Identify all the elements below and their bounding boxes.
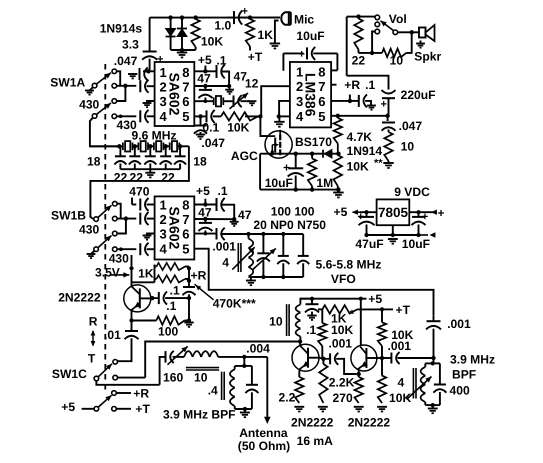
svg-text:1: 1 bbox=[296, 65, 303, 80]
capacitor .047 pin1 bbox=[139, 68, 141, 80]
svg-text:430: 430 bbox=[79, 98, 99, 112]
svg-text:2N2222: 2N2222 bbox=[291, 416, 334, 430]
wire 7805 left bbox=[360, 211, 377, 213]
resistor 1K mic bias bbox=[246, 19, 254, 47]
arrow +5 out bbox=[353, 211, 361, 213]
svg-text:10K: 10K bbox=[331, 323, 353, 337]
ground spkr bbox=[420, 41, 422, 44]
ground +R cap bbox=[367, 105, 376, 107]
diode D1 1N914 (down) bbox=[170, 18, 172, 50]
svg-text:.1: .1 bbox=[170, 284, 180, 298]
transistor Q1 2N2222 buffer bbox=[124, 285, 151, 312]
svg-text:1.0: 1.0 bbox=[214, 18, 231, 32]
wire x4-out bbox=[179, 145, 189, 147]
svg-text:3.9 MHz BPF: 3.9 MHz BPF bbox=[163, 407, 236, 421]
capacitor .1 +R osc bbox=[183, 286, 195, 288]
svg-text:.047: .047 bbox=[201, 136, 225, 150]
wire xtal-trimmer bbox=[223, 100, 233, 102]
switch SW1D pole bbox=[94, 407, 99, 412]
svg-text:+R: +R bbox=[133, 386, 149, 400]
wire 10 to spkr riser bbox=[406, 32, 412, 53]
wire U1 pin6 row bbox=[194, 100, 214, 102]
wire x2-x3 bbox=[148, 145, 154, 147]
svg-text:.01: .01 bbox=[104, 328, 121, 342]
svg-text:10K: 10K bbox=[201, 34, 223, 48]
resistor 10K (limiter) bbox=[191, 19, 199, 47]
svg-text:430: 430 bbox=[109, 251, 129, 265]
node bpf in bbox=[431, 356, 435, 360]
svg-text:2: 2 bbox=[160, 212, 167, 227]
capacitor 22c bbox=[165, 146, 167, 155]
svg-text:1: 1 bbox=[160, 65, 167, 80]
resistor 10K tx3 bbox=[381, 358, 383, 376]
node wiper-spkr bbox=[410, 30, 414, 34]
node pin8 +5 (U3) bbox=[203, 202, 207, 206]
node sw1b t2 bbox=[124, 216, 128, 220]
node collector bbox=[150, 296, 154, 300]
node src-left bbox=[270, 152, 274, 156]
capacitor 10uF reg bbox=[418, 212, 420, 216]
node sw1b t4 bbox=[119, 247, 123, 251]
ground SW1A pole1 bbox=[90, 87, 93, 90]
wire +R col down bbox=[188, 298, 190, 320]
wire U3 pin8 row bbox=[194, 204, 216, 206]
node pin5 bbox=[198, 114, 202, 118]
wire agc bottom row bbox=[260, 189, 338, 191]
capacitor 1.0 (polarized) bbox=[233, 11, 235, 24]
wire vol riser bbox=[346, 17, 348, 76]
svg-text:12: 12 bbox=[245, 76, 259, 90]
svg-text:+T: +T bbox=[396, 303, 411, 317]
node filt n2 bbox=[148, 144, 152, 148]
resistor 10 out bbox=[388, 130, 390, 133]
svg-text:22: 22 bbox=[130, 170, 144, 184]
svg-text:+: + bbox=[157, 54, 163, 66]
capacitor 47 (U3) bbox=[204, 219, 206, 223]
ground cap47b (U3) bbox=[230, 221, 239, 223]
svg-text:.047: .047 bbox=[399, 119, 423, 133]
wire sw1c pole drop bbox=[96, 381, 159, 385]
svg-text:SW1B: SW1B bbox=[51, 209, 86, 223]
node throw2 bbox=[123, 84, 127, 88]
svg-text:2.2K: 2.2K bbox=[329, 376, 355, 390]
node tx base bbox=[298, 339, 302, 343]
svg-text:400: 400 bbox=[450, 384, 470, 398]
capacitor 18a bbox=[119, 146, 121, 155]
node 22/10 junction bbox=[370, 51, 374, 55]
wire pin1 row bbox=[143, 70, 155, 72]
wire audio row to 10K bbox=[245, 115, 260, 117]
wire U2 pin4 to gnd node bbox=[279, 115, 290, 117]
svg-text:Vol: Vol bbox=[389, 12, 407, 26]
node bot-1M bbox=[310, 187, 314, 191]
svg-text:47: 47 bbox=[197, 72, 211, 86]
ground 10K** bbox=[337, 190, 339, 193]
svg-text:2: 2 bbox=[296, 79, 303, 94]
resistor 4.7K bbox=[337, 116, 339, 118]
svg-text:+: + bbox=[358, 211, 364, 223]
wire sw1b throw1 jumper bbox=[117, 204, 121, 219]
arrow 470K label bbox=[195, 284, 214, 300]
mixer U3 SA602 box bbox=[155, 196, 195, 259]
svg-text:1N914: 1N914 bbox=[347, 144, 383, 158]
node vfo b2 bbox=[281, 275, 285, 279]
wire 1K/470K left col bbox=[154, 265, 156, 283]
svg-text:+: + bbox=[381, 99, 387, 111]
transistor Q3 2N2222 tx2 bbox=[351, 345, 377, 371]
crystal BFO bbox=[216, 96, 221, 106]
svg-text:T: T bbox=[88, 352, 96, 366]
node pin7-.1 bbox=[227, 84, 231, 88]
svg-text:SW1C: SW1C bbox=[52, 367, 87, 381]
svg-text:+: + bbox=[299, 49, 305, 61]
switch SW1B throw3 bbox=[113, 231, 118, 236]
svg-text:1: 1 bbox=[160, 198, 167, 213]
node 47uF top bbox=[364, 210, 368, 214]
switch SW1A throw1 bbox=[112, 69, 117, 74]
wire coil to ant row bbox=[218, 356, 267, 358]
capacitor cap pin2 bbox=[139, 80, 141, 92]
wire q3 base lead bbox=[358, 370, 360, 375]
capacitor .1 (U3) bbox=[216, 198, 218, 211]
wire SW1A pole2 drop bbox=[90, 118, 119, 146]
inductor bpf coil bbox=[424, 363, 426, 367]
svg-text:3: 3 bbox=[160, 226, 167, 241]
capacitor cap pin4 bbox=[139, 110, 141, 122]
node tx rail a bbox=[310, 297, 314, 301]
wire U3 pin7 row bbox=[194, 218, 234, 220]
wire node to spkr bbox=[412, 31, 419, 33]
node q2 coll bbox=[321, 357, 325, 361]
svg-text:+: + bbox=[242, 6, 248, 18]
ground 2.2 bbox=[294, 406, 304, 408]
ground VFO bbox=[250, 277, 252, 281]
svg-text:.1: .1 bbox=[166, 299, 176, 313]
svg-text:3: 3 bbox=[160, 94, 167, 109]
capacitor .001 out bbox=[390, 353, 392, 364]
svg-text:22: 22 bbox=[114, 170, 128, 184]
wire 7805 right bbox=[409, 211, 436, 213]
svg-text:20 NP0 N750: 20 NP0 N750 bbox=[253, 218, 326, 232]
svg-text:+T: +T bbox=[248, 50, 263, 64]
svg-text:+5: +5 bbox=[368, 292, 382, 306]
svg-text:18: 18 bbox=[193, 155, 207, 169]
svg-text:3.3: 3.3 bbox=[122, 38, 139, 52]
ground SW1B pole2 bbox=[91, 251, 94, 254]
wire +T row bbox=[377, 308, 393, 310]
svg-text:LM386: LM386 bbox=[303, 73, 319, 117]
wire 7805 gnd bbox=[392, 225, 394, 235]
svg-text:10: 10 bbox=[390, 54, 404, 68]
switch SW1A throw2 bbox=[112, 84, 117, 89]
switch SW1C throw2 bbox=[113, 375, 118, 380]
wire .01 to sw1c bbox=[118, 358, 132, 361]
wire diode bottoms bbox=[171, 49, 196, 51]
svg-text:470: 470 bbox=[129, 185, 149, 199]
switch Vol wiper bbox=[393, 30, 398, 35]
switch Vol contact3 bbox=[375, 29, 380, 34]
svg-text:100: 100 bbox=[158, 324, 178, 338]
node filt in bbox=[117, 144, 121, 148]
svg-text:220uF: 220uF bbox=[401, 88, 436, 102]
svg-text:1K: 1K bbox=[138, 267, 154, 281]
svg-text:10uF: 10uF bbox=[265, 176, 293, 190]
wire vfo top row bbox=[249, 233, 304, 235]
wire vol rail bbox=[347, 16, 359, 18]
wire bs170 source row bbox=[260, 153, 338, 155]
svg-text:430: 430 bbox=[79, 223, 99, 237]
capacitor cap U3 pin2 bbox=[139, 213, 141, 225]
inductor VFO coil bbox=[248, 234, 250, 239]
ground 7805 bbox=[388, 238, 398, 240]
node 100 gnd bbox=[187, 318, 191, 322]
svg-text:+5: +5 bbox=[196, 184, 210, 198]
wire U2 pin7 stub bbox=[331, 84, 337, 86]
resistor 10K** bbox=[334, 155, 342, 186]
wire vol feed row bbox=[347, 76, 389, 90]
ground filter bbox=[149, 169, 151, 173]
svg-text:(50 Ohm): (50 Ohm) bbox=[238, 439, 290, 453]
capacitor .1 tx bbox=[311, 299, 313, 304]
node 10uF top bbox=[416, 210, 420, 214]
svg-text:+5: +5 bbox=[61, 400, 75, 414]
switch SW1D throw +T bbox=[112, 407, 117, 412]
node pin3/4 gnd bbox=[277, 114, 281, 118]
capacitor .001 feed bbox=[433, 316, 435, 321]
svg-text:.001: .001 bbox=[212, 239, 236, 253]
wire x3-x4 bbox=[164, 145, 170, 147]
node pin5-220uF bbox=[385, 114, 389, 118]
node pin7-47 bbox=[203, 84, 207, 88]
svg-text:10K: 10K bbox=[347, 159, 369, 173]
node 3.3-pin1 bbox=[146, 69, 150, 73]
switch SW1A pole1 bbox=[92, 83, 97, 88]
node src-1M bbox=[310, 152, 314, 156]
svg-text:1K: 1K bbox=[258, 28, 274, 42]
capacitor .1 +R bbox=[350, 100, 359, 102]
regulator 7805 box bbox=[377, 199, 410, 225]
svg-text:4: 4 bbox=[222, 256, 229, 270]
wire 1K* left col bbox=[321, 309, 323, 323]
node rail gnd bbox=[391, 233, 395, 237]
node filt n3 bbox=[164, 144, 168, 148]
crystal X3 bbox=[156, 141, 161, 151]
svg-text:5.6-5.8 MHz: 5.6-5.8 MHz bbox=[316, 258, 382, 272]
node filt n1 bbox=[133, 144, 137, 148]
node rail-1.0cap out bbox=[248, 15, 252, 19]
diode 1N914 agc2 bbox=[324, 150, 332, 159]
wire bpf loop bottom bbox=[425, 404, 440, 406]
svg-text:+R: +R bbox=[344, 78, 360, 92]
switch SW1C throw1 bbox=[113, 360, 118, 365]
resistor 10K tx2 bbox=[381, 309, 383, 322]
svg-text:BS170: BS170 bbox=[295, 135, 332, 149]
capacitor cap U3 pin4 bbox=[139, 243, 141, 255]
svg-text:22: 22 bbox=[161, 170, 175, 184]
node src-10uF bbox=[294, 152, 298, 156]
capacitor .1 out bbox=[152, 297, 159, 299]
wire filter out loop bbox=[90, 146, 188, 219]
svg-text:470K***: 470K*** bbox=[213, 297, 256, 311]
svg-text:Antenna: Antenna bbox=[239, 426, 288, 440]
node pin5-4.7K bbox=[336, 114, 340, 118]
wire 3.5V node col bbox=[131, 255, 133, 287]
wire U3 pin5 out bbox=[194, 249, 433, 316]
node rail 10uF bbox=[416, 233, 420, 237]
wire q3 coll from +5 bbox=[360, 299, 362, 346]
svg-text:.001: .001 bbox=[447, 317, 471, 331]
inductor .4 secondary bbox=[234, 366, 236, 369]
node 3.5v bbox=[129, 266, 133, 270]
svg-text:10uF: 10uF bbox=[402, 237, 430, 251]
node vol rail bbox=[356, 14, 360, 18]
svg-text:4: 4 bbox=[160, 109, 168, 124]
switch SW1D throw +R bbox=[112, 391, 117, 396]
ground 10K tx3 bbox=[377, 406, 387, 408]
wire rail to mic bbox=[250, 17, 280, 19]
svg-text:18: 18 bbox=[87, 155, 101, 169]
wire q2 base drop bbox=[299, 342, 301, 346]
ground 10 out bbox=[383, 162, 393, 164]
svg-text:47: 47 bbox=[198, 206, 212, 220]
wire filter cap bus bbox=[120, 168, 180, 170]
resistor 1M bbox=[311, 154, 313, 159]
resistor 470K bbox=[155, 278, 157, 280]
wire vfo bottom row bbox=[249, 276, 304, 278]
switch SW1B pole1 bbox=[94, 217, 99, 222]
capacitor 47uF bbox=[366, 212, 368, 216]
node pin7-47 (U3) bbox=[203, 217, 207, 221]
node tx rail b bbox=[359, 297, 363, 301]
mixer U1 SA602 box bbox=[155, 62, 195, 126]
wire U1 pin5 row bbox=[194, 115, 203, 117]
svg-text:1N914s: 1N914s bbox=[100, 21, 143, 35]
wire throw2 riser bbox=[145, 342, 300, 378]
wire vol rail to sw bbox=[359, 16, 376, 18]
ground 2.2K bbox=[318, 406, 328, 408]
svg-text:9 VDC: 9 VDC bbox=[394, 185, 430, 199]
wire +R node col bbox=[188, 267, 190, 287]
diode D2 1N914 (up) bbox=[181, 18, 183, 50]
svg-text:3: 3 bbox=[296, 94, 303, 109]
ground .047 pin1 bbox=[133, 73, 137, 75]
wire 10K to pin2 bbox=[258, 115, 260, 117]
svg-text:SA602: SA602 bbox=[167, 206, 183, 249]
svg-text:.1: .1 bbox=[218, 184, 228, 198]
svg-text:+5: +5 bbox=[198, 53, 212, 67]
wire filter input bbox=[90, 145, 123, 147]
node rail-diode2 bbox=[180, 15, 184, 19]
resistor 1K* bbox=[318, 308, 322, 310]
wire bpf stub bbox=[433, 358, 435, 363]
capacitor 100 N750 bbox=[302, 234, 304, 255]
ground cap47b bbox=[229, 86, 231, 90]
wire bpf loop top bbox=[425, 362, 440, 364]
node ant tank top bbox=[242, 355, 246, 359]
wire agc left col bbox=[259, 154, 261, 190]
ground 270 bbox=[354, 406, 364, 408]
node bot-10uF bbox=[294, 187, 298, 191]
capacitor tank bbox=[246, 384, 258, 386]
svg-text:10: 10 bbox=[269, 314, 283, 328]
arrow 9V- in bbox=[421, 234, 428, 236]
svg-text:9.6 MHz: 9.6 MHz bbox=[132, 129, 177, 143]
wire q2 coll lead bbox=[319, 358, 323, 359]
svg-text:3.9 MHz: 3.9 MHz bbox=[450, 353, 495, 367]
resistor 22 bbox=[354, 19, 362, 50]
node rail-10K bbox=[193, 15, 197, 19]
arrow 9V+ in bbox=[431, 210, 437, 215]
capacitor 3.3 bbox=[143, 51, 157, 53]
trimmer 160 bbox=[95, 384, 97, 386]
wire sw1c throw2 wire bbox=[118, 377, 146, 379]
svg-text:+: + bbox=[283, 161, 290, 175]
node rail 47uF bbox=[364, 233, 368, 237]
resistor 1K osc bbox=[155, 266, 157, 268]
inductor 10uH bbox=[184, 351, 193, 357]
wire emitter row bbox=[132, 320, 157, 322]
wire sw1b throw2 row bbox=[117, 218, 136, 220]
svg-text:.001: .001 bbox=[329, 337, 353, 351]
switch SW1A pole2 bbox=[92, 114, 97, 119]
svg-text:47: 47 bbox=[238, 208, 252, 222]
switch SW1B pole2 bbox=[94, 247, 99, 252]
ground U3 pin3 bbox=[147, 234, 155, 236]
wire x1-x2 bbox=[133, 145, 139, 147]
wire agc gate bbox=[260, 116, 267, 136]
ground .047 pin5 bbox=[200, 132, 202, 135]
svg-text:Spkr: Spkr bbox=[414, 50, 441, 64]
svg-text:4: 4 bbox=[398, 375, 405, 389]
node q3 out bbox=[380, 356, 384, 360]
node tank top bbox=[242, 364, 246, 368]
node bot-10K bbox=[336, 187, 340, 191]
svg-text:4: 4 bbox=[160, 241, 168, 256]
ground bpf bbox=[432, 405, 434, 408]
node src-diode bbox=[336, 152, 340, 156]
wire sw1b throw4 row bbox=[117, 248, 136, 250]
ground 100 bbox=[184, 322, 193, 324]
capacitor .01 bbox=[131, 329, 133, 331]
svg-text:*: * bbox=[350, 307, 355, 321]
node vfo b1 bbox=[261, 275, 265, 279]
node bpf top bbox=[431, 361, 435, 365]
svg-text:Mic: Mic bbox=[294, 12, 314, 26]
wire U1 pin7 row bbox=[194, 85, 229, 87]
svg-text:AGC: AGC bbox=[231, 149, 258, 163]
wire top rail from diodes to mic bbox=[150, 17, 280, 19]
wire wiper to node bbox=[398, 31, 412, 33]
capacitor .001 vfo bbox=[216, 228, 218, 240]
wire U2 pin3 drop bbox=[279, 101, 290, 117]
resistor 270 bbox=[358, 374, 360, 377]
svg-text:.004: .004 bbox=[246, 341, 270, 355]
wire base bar row bbox=[132, 281, 155, 283]
node pin6-xtal (U3) bbox=[204, 232, 208, 236]
node bpf bottom bbox=[431, 403, 435, 407]
svg-text:.4: .4 bbox=[208, 384, 218, 398]
node throw4 bbox=[119, 115, 123, 119]
wire antenna drop bbox=[266, 357, 268, 417]
switch SW1B throw1 bbox=[113, 201, 118, 206]
wire ant tank stub bbox=[243, 357, 245, 366]
resistor 10 (vol) bbox=[382, 49, 406, 57]
wire 3.3 input riser bbox=[149, 18, 151, 51]
svg-text:10: 10 bbox=[401, 140, 415, 154]
wire U2 pin5 row bbox=[331, 115, 388, 117]
wire tx +5 rail bbox=[300, 298, 360, 300]
transistor Q2 2N2222 tx1 bbox=[292, 344, 319, 371]
